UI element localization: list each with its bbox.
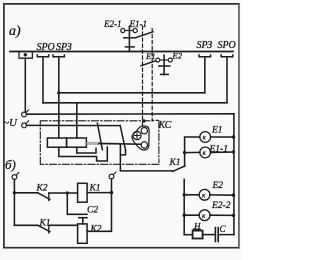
terminal b right (109, 172, 116, 179)
collector SPZ left (53, 55, 64, 138)
svg-text:С: С (220, 224, 227, 234)
capacitor C (215, 228, 234, 242)
node dot on box edge (142, 119, 145, 122)
rail b right (87, 179, 111, 231)
node K1 rail (110, 191, 113, 194)
node C2 branch (66, 191, 69, 194)
wire to cam follower (99, 143, 141, 146)
collector SPO right (221, 55, 233, 103)
lamp E2 (183, 189, 236, 200)
svg-text:К2: К2 (90, 225, 102, 235)
wire ~U lower (26, 124, 120, 126)
terminal ~U lower (22, 121, 29, 128)
svg-text:Е1-1: Е1-1 (209, 145, 228, 155)
svg-text:Е2-1: Е2-1 (103, 19, 122, 29)
collector SPO left (37, 55, 48, 103)
lamp E1-1 (183, 147, 235, 158)
terminal ~U upper (22, 110, 29, 117)
svg-text:К2: К2 (36, 184, 48, 194)
svg-text:SРЗ: SРЗ (197, 40, 213, 51)
wire SPO branch to coil2 (76, 103, 78, 138)
svg-text:к: к (202, 191, 206, 199)
wires under coils (59, 147, 108, 161)
collector SPZ right (199, 55, 211, 93)
svg-text:К1: К1 (39, 219, 51, 229)
mech dashed link 1 (142, 26, 144, 127)
lamp rail right (233, 114, 235, 235)
contact K2 (14, 193, 77, 201)
wire down to lamp switch (120, 144, 172, 171)
node fuse dot (24, 53, 27, 56)
coil K1 (78, 183, 88, 202)
svg-text:к: к (203, 134, 207, 142)
wire C2 branch (67, 193, 79, 214)
svg-text:К1: К1 (169, 158, 181, 168)
wire SPO net horizontal (43, 102, 227, 104)
svg-text:к: к (203, 149, 207, 157)
heater H element (193, 229, 203, 238)
rail b left (13, 179, 15, 225)
svg-text:Е1-1: Е1-1 (129, 19, 148, 29)
svg-text:~U: ~U (3, 117, 18, 129)
wire ~U upper to right rail (26, 113, 234, 115)
svg-text:Е1: Е1 (145, 51, 155, 61)
lamp group 2 rail (183, 179, 185, 234)
svg-text:Е2-2: Е2-2 (211, 201, 231, 211)
wire K1 to rail (87, 192, 111, 194)
terminal b left (12, 173, 19, 180)
bus L1 (10, 51, 233, 53)
dashed corner to KC label (152, 119, 158, 121)
mech dashed link 2 (151, 29, 153, 119)
switch E1/E2 (141, 55, 172, 75)
coil 1 (47, 138, 66, 147)
switch E2-1/E1-1 (121, 26, 153, 51)
lamp E2-2 (183, 210, 236, 221)
svg-text:б): б) (5, 157, 16, 172)
wire SPZ net horizontal (59, 92, 205, 94)
node SPZ junction (57, 91, 60, 94)
svg-text:а): а) (9, 24, 21, 39)
contact K1 bottom (14, 225, 77, 233)
svg-text:к: к (202, 212, 206, 220)
relay enclosure dash-dot box (40, 121, 159, 165)
svg-text:Е2: Е2 (172, 51, 183, 61)
coil K2 (78, 224, 88, 243)
svg-text:С2: С2 (87, 206, 98, 216)
wire fuse to ~U (24, 58, 26, 112)
svg-text:КС: КС (158, 120, 172, 131)
contact blade B (120, 126, 125, 151)
wire H to C (203, 234, 215, 236)
svg-text:Н: Н (193, 222, 201, 232)
border frame (4, 4, 239, 248)
svg-text:Е1: Е1 (211, 126, 223, 136)
svg-text:SРО: SРО (218, 40, 236, 51)
svg-text:SРЗ: SРЗ (56, 42, 72, 53)
fuse F at bus left (19, 52, 32, 59)
node b left (13, 191, 16, 194)
contact blade A (97, 123, 102, 150)
lamp group 1 rail (185, 137, 200, 166)
cam plate KC (132, 126, 149, 150)
svg-text:SРО: SРО (37, 42, 55, 53)
gray faded wire (87, 142, 102, 145)
lamp E1 (200, 132, 235, 143)
svg-text:Е2: Е2 (212, 181, 224, 191)
contact K1 lamp selector (173, 166, 185, 171)
heater H row (184, 234, 192, 236)
coil 2 (67, 138, 87, 147)
capacitor C2 (79, 214, 87, 224)
